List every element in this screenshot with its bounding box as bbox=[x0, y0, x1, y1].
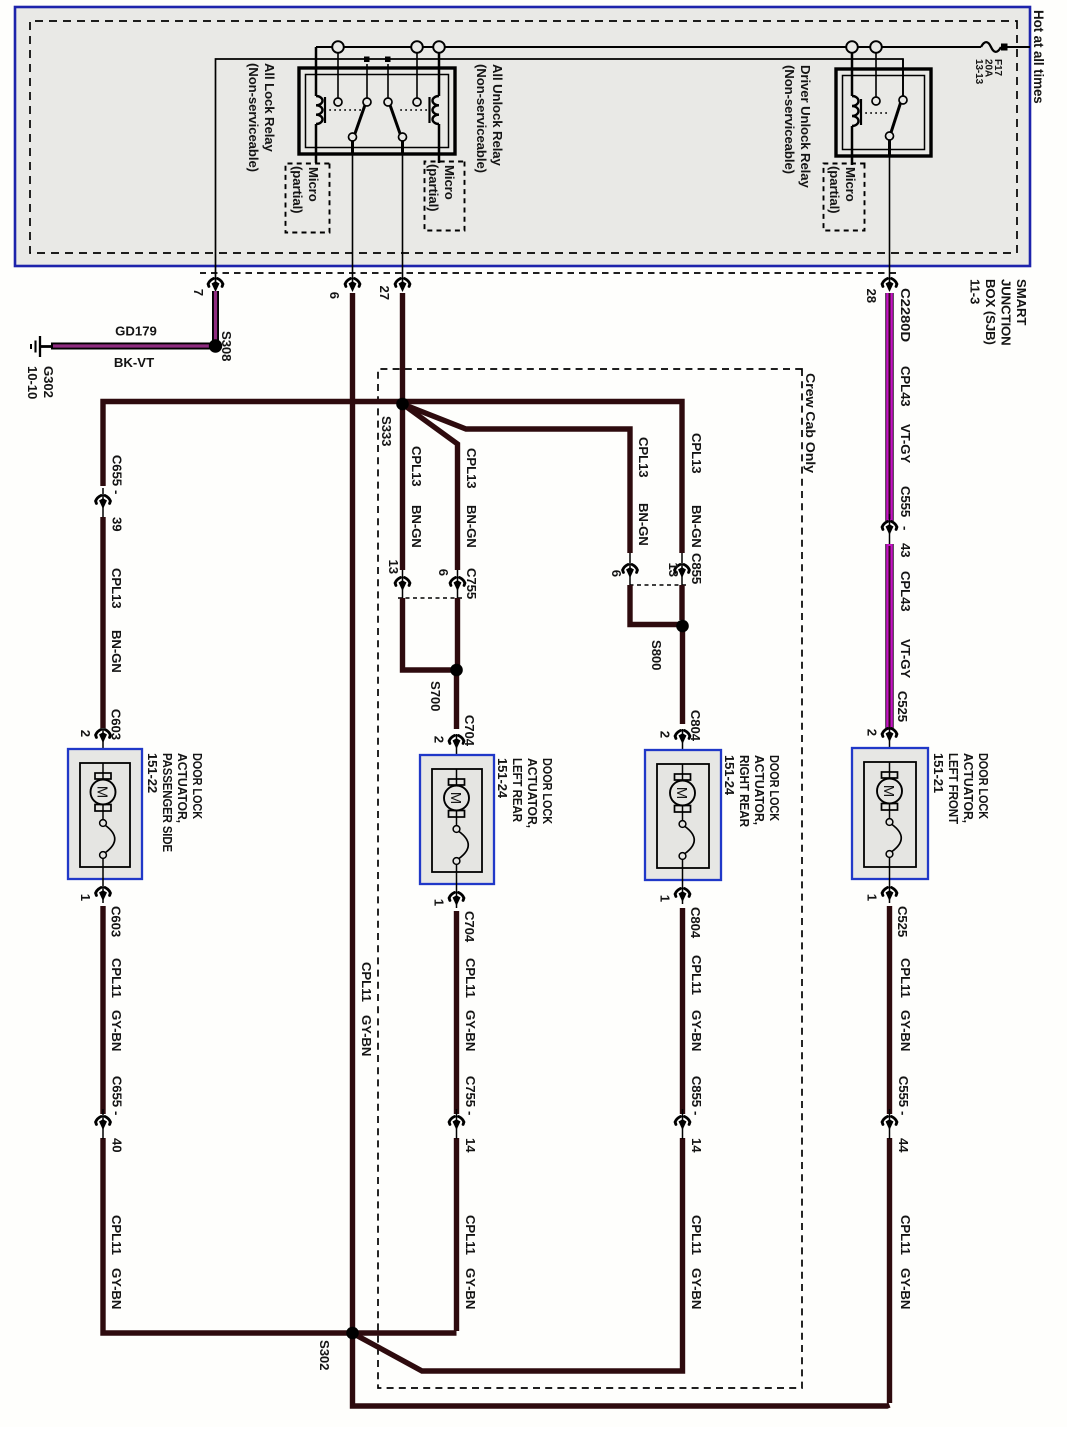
svg-text:BN-GN: BN-GN bbox=[109, 630, 124, 673]
label C804 after bbox=[688, 907, 703, 939]
label door lock actuator right rear bbox=[722, 755, 782, 828]
svg-text:-: - bbox=[110, 1111, 125, 1115]
svg-text:C655: C655 bbox=[110, 1076, 125, 1107]
label G302 10-10 bbox=[25, 366, 56, 399]
wire branch D to S800 bbox=[630, 585, 683, 625]
label CPL11 GY-BN right rear return bbox=[689, 955, 704, 1309]
wire into actuator left front bbox=[889, 727, 891, 762]
label C655 - 39 bbox=[110, 455, 125, 532]
svg-text:1: 1 bbox=[78, 894, 93, 901]
wire CPL13 branch D bbox=[403, 404, 631, 585]
svg-text:CPL13: CPL13 bbox=[689, 433, 704, 474]
connector arrow C704 pin 1 bbox=[449, 893, 464, 907]
label C704 pin 1 bbox=[432, 899, 447, 906]
wire right rear return to S302 bbox=[354, 1334, 683, 1371]
label C2280D CPL43 VT-GY bbox=[898, 288, 913, 463]
wire BN-GN to C603 bbox=[100, 517, 105, 728]
svg-text:LEFT FRONT: LEFT FRONT bbox=[946, 753, 961, 824]
coil All Lock Relay bbox=[316, 96, 325, 124]
label CPL13 BN-GN branch A bbox=[409, 446, 424, 548]
label C755 bbox=[464, 568, 479, 599]
connector arrow C525 pin 2 bbox=[882, 729, 897, 743]
svg-text:6: 6 bbox=[327, 292, 342, 299]
wire bus to All Lock coil bbox=[315, 47, 318, 163]
svg-text:SMART: SMART bbox=[1014, 279, 1029, 325]
svg-text:11-3: 11-3 bbox=[968, 279, 983, 304]
svg-text:151-24: 151-24 bbox=[495, 758, 510, 799]
svg-text:C555: C555 bbox=[896, 1076, 911, 1107]
svg-text:CPL11: CPL11 bbox=[109, 1215, 124, 1255]
svg-text:S333: S333 bbox=[379, 416, 394, 446]
switch arm Driver Unlock bbox=[891, 103, 901, 133]
svg-text:CPL11: CPL11 bbox=[463, 958, 478, 998]
wire branch A to S700 bbox=[403, 598, 457, 670]
wire CPL11 GY-BN left rear return bbox=[454, 911, 459, 1331]
relay actuation dotted line lock bbox=[329, 109, 361, 111]
label CPL13 BN-GN branch D bbox=[636, 437, 651, 546]
label Micro (partial) bbox=[290, 166, 321, 213]
connector arrow C603 pin 2 bbox=[96, 730, 111, 744]
connector arrow C603 pin 1 bbox=[96, 888, 111, 902]
svg-text:GY-BN: GY-BN bbox=[109, 1268, 124, 1309]
svg-text:C755: C755 bbox=[463, 1076, 478, 1107]
label S333 bbox=[379, 416, 394, 446]
door lock actuator left front outline bbox=[852, 748, 928, 879]
svg-text:C704: C704 bbox=[462, 715, 477, 747]
relay box Driver Unlock outline bbox=[836, 69, 931, 156]
label C603 after bbox=[109, 906, 124, 937]
connector arrow C804 pin 1 bbox=[675, 889, 690, 903]
svg-text:VT-GY: VT-GY bbox=[898, 639, 913, 678]
wire S800 to C804 bbox=[680, 630, 685, 724]
svg-text:CPL13: CPL13 bbox=[409, 446, 424, 487]
micro partial box All Unlock bbox=[425, 162, 465, 231]
pin circle driver switch common bbox=[899, 96, 907, 104]
label S302 bbox=[317, 1340, 332, 1370]
label S700 bbox=[428, 681, 443, 711]
label All Unlock Relay (Non-serviceable) bbox=[474, 64, 505, 173]
svg-text:Micro: Micro bbox=[306, 167, 321, 202]
label CPL11 GY-BN pin6 wire bbox=[359, 962, 374, 1056]
wire All Lock output bbox=[351, 141, 354, 289]
svg-text:RIGHT REAR: RIGHT REAR bbox=[737, 755, 752, 828]
label door lock actuator left front bbox=[931, 753, 991, 824]
in-line connector C655-40 bbox=[96, 1109, 111, 1139]
wire feed to unlock switch common bbox=[387, 64, 389, 98]
wire passenger return corner to S302 bbox=[103, 1331, 457, 1333]
svg-text:C603: C603 bbox=[109, 709, 124, 740]
svg-text:M: M bbox=[673, 787, 690, 800]
svg-text:7: 7 bbox=[191, 289, 206, 296]
pin circle lock supply bbox=[334, 98, 342, 106]
svg-text:1: 1 bbox=[865, 894, 880, 901]
svg-text:ACTUATOR,: ACTUATOR, bbox=[525, 758, 540, 828]
bus ring unlock switch supply bbox=[411, 41, 423, 53]
wire bus ring to pin bbox=[875, 52, 877, 97]
svg-text:BN-GN: BN-GN bbox=[636, 503, 651, 546]
svg-text:C603: C603 bbox=[109, 906, 124, 937]
svg-text:C804: C804 bbox=[688, 710, 703, 742]
wire Driver Unlock output bbox=[888, 140, 891, 289]
motor symbol left rear bbox=[444, 769, 469, 817]
bus ring Driver switch supply bbox=[870, 41, 882, 53]
label pin 27 bbox=[377, 286, 392, 300]
svg-text:(Non-serviceable): (Non-serviceable) bbox=[246, 63, 261, 172]
svg-text:DOOR LOCK: DOOR LOCK bbox=[190, 753, 205, 819]
wire bus to Driver coil bbox=[851, 52, 854, 165]
label CPL13 BN-GN branch B bbox=[464, 448, 479, 548]
label Driver Unlock Relay (Non-serviceable) bbox=[782, 65, 813, 188]
svg-text:BOX (SJB): BOX (SJB) bbox=[983, 279, 998, 345]
wire bus ring to pin bbox=[337, 52, 339, 98]
svg-text:GY-BN: GY-BN bbox=[689, 1010, 704, 1051]
wire feed to driver switch common bbox=[902, 59, 904, 96]
switch contacts left front bbox=[886, 804, 901, 903]
svg-text:1: 1 bbox=[658, 895, 673, 902]
motor symbol passenger side bbox=[91, 763, 116, 811]
ground G302 bbox=[31, 336, 51, 357]
svg-text:Micro: Micro bbox=[442, 165, 457, 200]
svg-text:-: - bbox=[898, 526, 913, 530]
svg-text:C855: C855 bbox=[689, 553, 704, 584]
label CPL13 BN-GN passenger bbox=[109, 568, 124, 673]
label GD179 bbox=[115, 324, 157, 339]
svg-text:6: 6 bbox=[436, 569, 451, 576]
wire CPL11 GY-BN passenger return bbox=[100, 906, 105, 1331]
svg-text:DOOR LOCK: DOOR LOCK bbox=[767, 755, 782, 821]
label Hot at all times bbox=[1031, 10, 1046, 104]
svg-text:14: 14 bbox=[689, 1138, 704, 1153]
svg-text:GY-BN: GY-BN bbox=[463, 1010, 478, 1051]
node S333 bbox=[397, 398, 408, 409]
label C655 - 40 bbox=[110, 1076, 125, 1153]
svg-text:1: 1 bbox=[432, 899, 447, 906]
svg-text:CPL13: CPL13 bbox=[109, 568, 124, 609]
svg-text:ACTUATOR,: ACTUATOR, bbox=[961, 753, 976, 823]
svg-text:CPL11: CPL11 bbox=[689, 955, 704, 995]
svg-text:CPL11: CPL11 bbox=[898, 958, 913, 998]
switch arm All Lock bbox=[355, 105, 365, 134]
svg-text:CPL13: CPL13 bbox=[464, 448, 479, 489]
svg-text:(partial): (partial) bbox=[426, 164, 441, 211]
svg-text:C755: C755 bbox=[464, 568, 479, 599]
svg-text:C804: C804 bbox=[688, 907, 703, 939]
svg-text:GY-BN: GY-BN bbox=[689, 1268, 704, 1309]
svg-text:6: 6 bbox=[609, 570, 624, 577]
label All Lock Relay (Non-serviceable) bbox=[246, 63, 277, 172]
svg-text:151-22: 151-22 bbox=[145, 753, 160, 793]
svg-text:Crew Cab Only: Crew Cab Only bbox=[803, 373, 818, 474]
svg-text:40: 40 bbox=[110, 1138, 125, 1152]
svg-text:GY-BN: GY-BN bbox=[359, 1015, 374, 1056]
wire pin27 to S333 bbox=[400, 293, 405, 404]
label C755 - 14 bbox=[463, 1076, 478, 1153]
svg-text:-: - bbox=[689, 1111, 704, 1115]
node S333 junction dot bbox=[396, 398, 409, 411]
label BK-VT bbox=[114, 355, 154, 370]
svg-text:BK-VT: BK-VT bbox=[114, 355, 154, 370]
label C855 - 14 bbox=[689, 1076, 704, 1153]
svg-text:C525: C525 bbox=[895, 906, 910, 937]
motor symbol left front bbox=[877, 762, 902, 810]
node S800 junction dot bbox=[676, 620, 689, 633]
svg-text:M: M bbox=[94, 786, 111, 799]
svg-text:(partial): (partial) bbox=[290, 166, 305, 213]
label C603 pin 1 bbox=[78, 894, 93, 901]
motor symbol right rear bbox=[670, 764, 695, 812]
svg-text:CPL11: CPL11 bbox=[109, 958, 124, 998]
svg-text:151-24: 151-24 bbox=[722, 755, 737, 796]
connector arrow C525 pin 1 bbox=[882, 888, 897, 902]
svg-text:C555: C555 bbox=[898, 486, 913, 517]
node S302 junction dot bbox=[346, 1327, 359, 1340]
wire BK-VT S308 to ground GD179 bbox=[51, 343, 215, 350]
switch contact Driver Unlock bbox=[886, 132, 894, 140]
coil Driver Unlock Relay bbox=[852, 96, 861, 126]
svg-text:BN-GN: BN-GN bbox=[409, 505, 424, 548]
label C804 before bbox=[688, 710, 703, 742]
svg-text:14: 14 bbox=[463, 1138, 478, 1153]
svg-text:PASSENGER SIDE: PASSENGER SIDE bbox=[160, 753, 175, 852]
wire CPL43 VT-GY pin28 segment1 bbox=[885, 293, 893, 521]
svg-text:44: 44 bbox=[896, 1138, 911, 1153]
svg-text:CPL11: CPL11 bbox=[359, 962, 374, 1002]
svg-text:C655: C655 bbox=[110, 455, 125, 486]
svg-text:LEFT REAR: LEFT REAR bbox=[510, 758, 525, 823]
svg-text:39: 39 bbox=[110, 517, 125, 531]
svg-text:C855: C855 bbox=[689, 1076, 704, 1107]
label CPL11 GY-BN passenger return bbox=[109, 958, 124, 1309]
label S308 bbox=[219, 331, 234, 361]
door lock actuator right rear outline bbox=[645, 750, 721, 880]
wire CPL43 VT-GY segment2 bbox=[885, 544, 893, 730]
label CPL11 GY-BN left rear return bbox=[463, 958, 478, 1309]
label C525 pin 1 bbox=[865, 894, 880, 901]
label C704 before bbox=[462, 715, 477, 747]
svg-text:CPL13: CPL13 bbox=[636, 437, 651, 478]
svg-text:2: 2 bbox=[865, 729, 880, 736]
label CPL13 BN-GN branch C bbox=[689, 433, 704, 548]
connector arrow pin 7 bbox=[208, 279, 223, 293]
label Micro (partial) bbox=[827, 166, 858, 213]
wire branch C to S800 bbox=[679, 585, 684, 620]
switch contacts left rear bbox=[453, 811, 468, 908]
node S302 bbox=[347, 1327, 358, 1338]
door lock actuator left rear outline bbox=[420, 755, 494, 884]
connector C855 dashed line bbox=[627, 584, 686, 586]
door lock actuator passenger side outline bbox=[68, 749, 142, 879]
label C525 before bbox=[895, 691, 910, 722]
svg-text:GY-BN: GY-BN bbox=[463, 1268, 478, 1309]
label pin 28 bbox=[864, 289, 879, 303]
svg-text:CPL11: CPL11 bbox=[898, 1215, 913, 1255]
svg-text:CPL43: CPL43 bbox=[898, 571, 913, 612]
svg-text:DOOR LOCK: DOOR LOCK bbox=[540, 758, 555, 824]
connector arrow pin 27 bbox=[395, 279, 410, 293]
svg-text:CPL43: CPL43 bbox=[898, 366, 913, 407]
label C603 before bbox=[109, 709, 124, 740]
svg-text:C525: C525 bbox=[895, 691, 910, 722]
connector arrow C804 pin 2 bbox=[675, 731, 690, 745]
svg-text:All Lock Relay: All Lock Relay bbox=[262, 63, 277, 153]
svg-text:(partial): (partial) bbox=[827, 166, 842, 213]
connector arrow pin 6 bbox=[345, 279, 360, 293]
micro partial box All Lock bbox=[286, 164, 330, 233]
label C603 pin 2 bbox=[78, 730, 93, 737]
label CPL43 VT-GY segment2 bbox=[898, 571, 913, 678]
label C555 - 43 bbox=[898, 486, 913, 557]
svg-text:Micro: Micro bbox=[843, 167, 858, 202]
svg-text:BN-GN: BN-GN bbox=[689, 505, 704, 548]
in-line connector C555-44 bbox=[882, 1109, 897, 1139]
wire S302 bottom bus bbox=[353, 1333, 890, 1406]
svg-text:(Non-serviceable): (Non-serviceable) bbox=[782, 65, 797, 174]
in-line connector C655-39 bbox=[96, 488, 111, 518]
wire CPL13 branch A bbox=[400, 404, 405, 598]
smart junction box SJB outline bbox=[15, 7, 1030, 266]
svg-text:2: 2 bbox=[432, 736, 447, 743]
pin circle lock switch common bbox=[363, 98, 371, 106]
wire branch B to S700 bbox=[455, 598, 460, 666]
switch contact All Lock bbox=[349, 133, 357, 141]
connector arrow C755 pin6 bbox=[450, 578, 465, 592]
connector C755 dashed line bbox=[398, 597, 462, 599]
bus ring lock switch supply bbox=[332, 41, 344, 53]
svg-text:VT-GY: VT-GY bbox=[898, 424, 913, 463]
label SMART JUNCTION BOX (SJB) 11-3 bbox=[968, 279, 1030, 346]
svg-text:M: M bbox=[447, 792, 464, 805]
label C804 pin 2 bbox=[658, 731, 673, 738]
wire feed to lock switch common bbox=[366, 64, 368, 98]
svg-text:13: 13 bbox=[386, 560, 401, 574]
wire CPL11 GY-BN left front return bbox=[887, 906, 892, 1403]
label pin 13 C855 bbox=[666, 563, 681, 577]
label pin 7 bbox=[191, 289, 206, 296]
svg-text:GY-BN: GY-BN bbox=[898, 1268, 913, 1309]
switch arm All Unlock bbox=[390, 105, 400, 134]
svg-text:JUNCTION: JUNCTION bbox=[999, 279, 1014, 346]
node S700 bbox=[451, 664, 462, 675]
svg-text:CPL11: CPL11 bbox=[463, 1215, 478, 1255]
node S800 bbox=[677, 620, 688, 631]
wire CPL13 branch C bbox=[406, 402, 682, 586]
connector arrow C704 pin 2 bbox=[449, 736, 464, 750]
wire into actuator left rear bbox=[456, 734, 458, 769]
label C555 - 44 bbox=[896, 1076, 911, 1153]
label pin 6 C755 bbox=[436, 569, 451, 576]
svg-text:-: - bbox=[110, 490, 125, 494]
svg-text:BN-GN: BN-GN bbox=[464, 505, 479, 548]
svg-text:13: 13 bbox=[666, 563, 681, 577]
connector arrow C855 pin13 bbox=[675, 565, 690, 579]
bus ring Driver coil feed bbox=[846, 41, 858, 53]
bus ring All Unlock coil feed bbox=[433, 41, 445, 53]
svg-text:DOOR LOCK: DOOR LOCK bbox=[976, 753, 991, 819]
wire into actuator right rear bbox=[682, 729, 684, 764]
svg-text:(Non-serviceable): (Non-serviceable) bbox=[474, 64, 489, 173]
label Micro (partial) bbox=[426, 164, 457, 211]
wire CPL11 GY-BN right rear return bbox=[680, 908, 685, 1367]
svg-text:10-10: 10-10 bbox=[25, 366, 40, 399]
label Crew Cab Only bbox=[803, 373, 818, 474]
label pin 6 bbox=[327, 292, 342, 299]
label C804 pin 1 bbox=[658, 895, 673, 902]
wire relay switch feed line bbox=[216, 59, 904, 289]
in-line connector C855-14 bbox=[675, 1109, 690, 1139]
wire CPL13 branch B bbox=[403, 404, 458, 598]
connector arrow pin 28 bbox=[882, 279, 897, 293]
wire CPL13 S333 to passenger corner bbox=[103, 402, 406, 487]
svg-text:S800: S800 bbox=[649, 640, 664, 670]
svg-text:27: 27 bbox=[377, 286, 392, 300]
label pin 6 C855 bbox=[609, 570, 624, 577]
svg-text:-: - bbox=[463, 1111, 478, 1115]
wire BK-VT pin7 to S308 bbox=[212, 291, 219, 346]
svg-text:CPL11: CPL11 bbox=[689, 1215, 704, 1255]
label C525 after bbox=[895, 906, 910, 937]
svg-text:C704: C704 bbox=[462, 911, 477, 943]
crew cab only dashed box bbox=[378, 369, 802, 1388]
in-line connector C555-43 bbox=[882, 514, 897, 544]
svg-text:G302: G302 bbox=[41, 366, 56, 398]
label C704 after bbox=[462, 911, 477, 943]
wire All Unlock output bbox=[401, 141, 404, 289]
label pin 13 C755 bbox=[386, 560, 401, 574]
svg-text:28: 28 bbox=[864, 289, 879, 303]
pin circle unlock switch common bbox=[384, 98, 392, 106]
wire S700 to C704 bbox=[454, 674, 459, 729]
svg-text:S700: S700 bbox=[428, 681, 443, 711]
wire bus to All Unlock coil bbox=[438, 52, 441, 163]
switch contacts right rear bbox=[679, 806, 694, 904]
connector arrow C755 pin13 bbox=[395, 578, 410, 592]
svg-text:2: 2 bbox=[658, 731, 673, 738]
wire into actuator passenger side bbox=[102, 728, 104, 763]
svg-text:2: 2 bbox=[78, 730, 93, 737]
label door lock actuator left rear bbox=[495, 758, 555, 828]
wire CPL11 GY-BN pin6 to S302 bbox=[350, 293, 355, 1333]
junction dot feed unlock switch bbox=[385, 57, 391, 63]
label C855 bbox=[689, 553, 704, 584]
in-line connector C755-14 bbox=[449, 1109, 464, 1139]
connector arrow C855 pin6 bbox=[623, 565, 638, 579]
svg-text:GY-BN: GY-BN bbox=[898, 1010, 913, 1051]
svg-text:151-21: 151-21 bbox=[931, 753, 946, 793]
node S308 junction dot bbox=[209, 339, 222, 352]
SJB inner dashed border bbox=[30, 21, 1017, 253]
wire power bus bbox=[316, 46, 1030, 48]
label door lock actuator passenger side bbox=[145, 753, 205, 852]
wire bus ring to pin bbox=[416, 52, 418, 98]
svg-text:S302: S302 bbox=[317, 1340, 332, 1370]
node S308 bbox=[210, 341, 221, 352]
pin circle unlock supply bbox=[413, 98, 421, 106]
relay actuation dotted line driver bbox=[864, 112, 887, 114]
svg-text:All Unlock Relay: All Unlock Relay bbox=[490, 64, 505, 167]
label S800 bbox=[649, 640, 664, 670]
svg-text:Hot at all times: Hot at all times bbox=[1031, 10, 1046, 104]
label F17 20A 13-13 bbox=[973, 59, 1003, 85]
svg-text:GD179: GD179 bbox=[115, 324, 157, 339]
label C525 pin 2 bbox=[865, 729, 880, 736]
coil All Unlock Relay bbox=[430, 96, 440, 124]
svg-text:GY-BN: GY-BN bbox=[109, 1010, 124, 1051]
svg-text:ACTUATOR,: ACTUATOR, bbox=[175, 753, 190, 823]
micro partial box Driver Unlock bbox=[824, 164, 865, 231]
pin circle driver supply bbox=[872, 97, 880, 105]
junction dot feed lock switch bbox=[364, 57, 370, 63]
svg-text:ACTUATOR,: ACTUATOR, bbox=[752, 755, 767, 825]
